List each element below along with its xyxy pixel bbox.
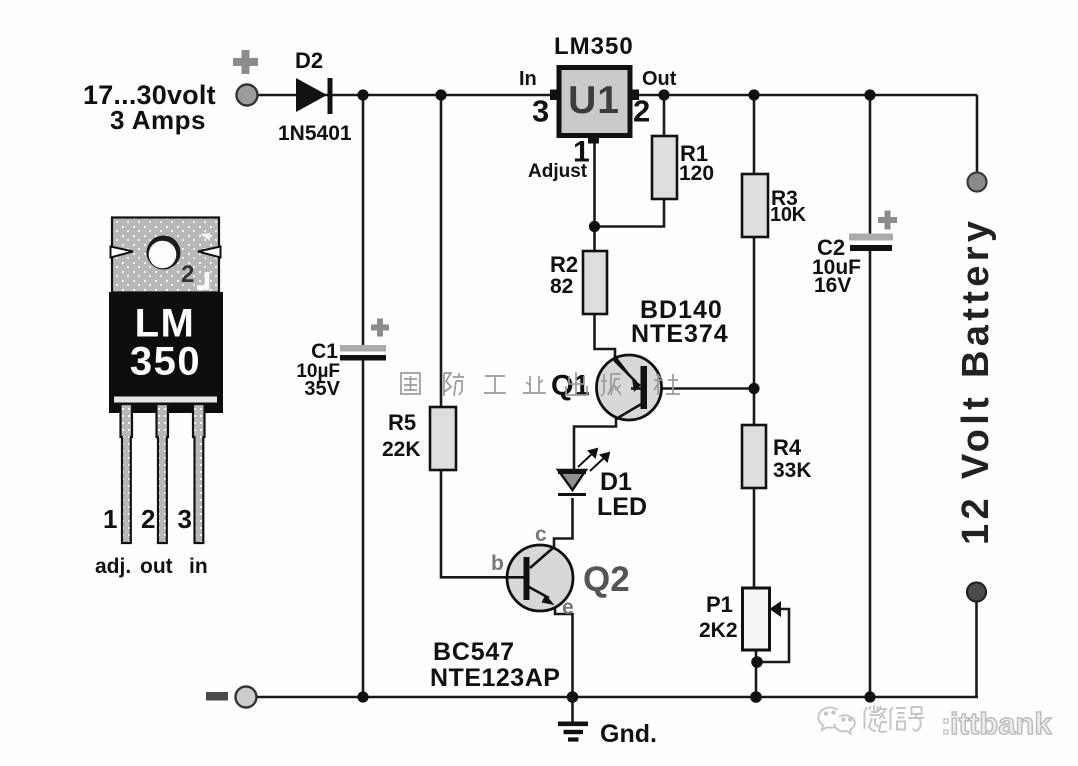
watermark 版 bbox=[601, 374, 621, 396]
battery minus terminal bbox=[967, 583, 986, 602]
wire battery plus drop bbox=[976, 95, 979, 174]
node P1 wiper bottom bbox=[751, 656, 763, 668]
wire R1 top bbox=[663, 95, 666, 136]
svg-text:2K2: 2K2 bbox=[699, 619, 738, 642]
wechat icon bbox=[818, 708, 855, 734]
svg-text:C1: C1 bbox=[311, 340, 338, 363]
svg-text:BC547: BC547 bbox=[433, 638, 515, 666]
svg-text:2: 2 bbox=[141, 504, 155, 534]
wire C2 bottom bbox=[869, 251, 872, 697]
wire R5 to Q2 base bbox=[441, 470, 524, 577]
watermark 国 bbox=[401, 373, 420, 394]
node adjust bbox=[589, 221, 600, 232]
wire P1 bottom bbox=[755, 650, 758, 697]
plus symbol C2 bbox=[878, 211, 897, 230]
node C2 bottom bbox=[864, 691, 875, 702]
svg-text:82: 82 bbox=[550, 275, 573, 298]
svg-text:Q2: Q2 bbox=[583, 560, 630, 599]
LED D1 bbox=[558, 470, 586, 495]
minus symbol bbox=[206, 692, 228, 701]
svg-text:1: 1 bbox=[103, 504, 117, 534]
watermark 社 bbox=[654, 374, 680, 395]
wire C1 branch upper bbox=[362, 95, 365, 345]
wire R1 bottom to adjust node bbox=[595, 199, 665, 227]
resistor R5 bbox=[430, 407, 456, 470]
node Q1 base R3 R4 bbox=[748, 383, 759, 394]
svg-text:3: 3 bbox=[532, 94, 549, 129]
plus symbol input bbox=[233, 50, 258, 74]
node R5 top bbox=[435, 89, 446, 100]
transistor Q2 bbox=[505, 545, 573, 611]
input terminal plus bbox=[237, 85, 258, 106]
wire U1 adjust bbox=[593, 140, 596, 251]
wire Q1 base to node bbox=[647, 387, 754, 390]
wire battery minus drop bbox=[975, 600, 978, 697]
LED arrows bbox=[578, 449, 609, 471]
package leg 2 bbox=[157, 404, 169, 543]
svg-text:e: e bbox=[562, 596, 574, 619]
svg-text:LM350: LM350 bbox=[554, 33, 634, 60]
wire P1 wiper loop bbox=[760, 609, 789, 662]
watermark 业 bbox=[523, 376, 546, 393]
plus symbol C1 bbox=[371, 319, 389, 337]
wire C2 top bbox=[869, 95, 872, 234]
svg-text:LED: LED bbox=[597, 493, 647, 521]
watermark 工 bbox=[484, 376, 506, 393]
resistor R3 bbox=[742, 174, 768, 237]
wire Q1 collector to LED bbox=[574, 403, 643, 470]
svg-text:35V: 35V bbox=[304, 378, 340, 400]
package body bbox=[109, 292, 223, 413]
svg-text:2: 2 bbox=[633, 94, 650, 129]
transistor Q1 bbox=[597, 355, 662, 420]
wire R4 top bbox=[753, 388, 756, 425]
node P1 bottom bbox=[750, 691, 762, 703]
node R1 out bbox=[658, 89, 669, 100]
LM350 package tab bbox=[111, 218, 221, 293]
battery plus terminal bbox=[968, 173, 987, 192]
node C1 bottom bbox=[357, 691, 368, 702]
watermark 防 bbox=[444, 373, 464, 396]
watermark weixin text bbox=[864, 705, 924, 732]
svg-text:R4: R4 bbox=[773, 435, 802, 460]
pin 1 nub bbox=[588, 136, 599, 144]
svg-text:R2: R2 bbox=[550, 252, 578, 277]
svg-text:33K: 33K bbox=[773, 459, 812, 482]
wire top rail bbox=[257, 94, 977, 97]
pin 3 nub bbox=[550, 90, 559, 101]
node C2 top bbox=[864, 89, 875, 100]
svg-text:D2: D2 bbox=[295, 48, 323, 73]
pin 2 nub bbox=[630, 90, 639, 101]
svg-text:ittbank: ittbank bbox=[950, 706, 1052, 741]
wire R3 top bbox=[753, 95, 756, 174]
wire C1 branch lower bbox=[362, 360, 365, 697]
watermark 出 bbox=[566, 372, 587, 395]
wire R4 to P1 bbox=[753, 488, 756, 588]
svg-text:P1: P1 bbox=[706, 592, 733, 617]
svg-text:In: In bbox=[519, 68, 537, 90]
diode D2 bbox=[296, 78, 333, 114]
capacitor C2 bbox=[849, 234, 893, 252]
svg-text:adj.: adj. bbox=[95, 555, 131, 578]
svg-text:3: 3 bbox=[178, 504, 192, 534]
svg-text:16V: 16V bbox=[814, 274, 851, 297]
svg-text:b: b bbox=[491, 552, 504, 575]
svg-text:NTE123AP: NTE123AP bbox=[430, 664, 560, 692]
op-amp U1 regulator box bbox=[559, 68, 630, 136]
svg-text:NTE374: NTE374 bbox=[631, 320, 729, 348]
node ground bbox=[567, 691, 579, 703]
svg-text:120: 120 bbox=[679, 162, 714, 185]
svg-text:U1: U1 bbox=[568, 79, 620, 122]
wire R3 bottom bbox=[753, 237, 756, 388]
wire bottom rail bbox=[256, 696, 978, 699]
ground bbox=[558, 697, 588, 742]
package hole bbox=[147, 236, 181, 270]
svg-text:22K: 22K bbox=[382, 438, 421, 461]
wire Q2 emitter to ground rail bbox=[551, 598, 573, 697]
svg-text:350: 350 bbox=[130, 340, 201, 384]
output terminal minus bbox=[236, 687, 257, 708]
wire R5 branch bbox=[440, 95, 443, 407]
svg-text:Q1: Q1 bbox=[551, 370, 590, 402]
svg-text:Out: Out bbox=[642, 68, 677, 90]
svg-text:D1: D1 bbox=[600, 468, 632, 496]
capacitor C1 bbox=[340, 345, 386, 361]
resistor R1 bbox=[652, 136, 677, 199]
resistor R2 bbox=[583, 251, 607, 314]
svg-text:10K: 10K bbox=[770, 204, 807, 226]
resistor R4 bbox=[742, 425, 766, 488]
package leg 1 bbox=[121, 404, 133, 543]
svg-text:in: in bbox=[189, 555, 208, 578]
svg-text:3 Amps: 3 Amps bbox=[110, 105, 206, 135]
node C1 top bbox=[357, 89, 368, 100]
wire LED cathode to Q2 collector bbox=[530, 498, 573, 568]
svg-text:Adjust: Adjust bbox=[528, 161, 588, 182]
svg-text:out: out bbox=[140, 555, 173, 578]
package leg 3 bbox=[193, 404, 205, 543]
svg-text:2: 2 bbox=[181, 261, 194, 288]
svg-text:Gnd.: Gnd. bbox=[600, 720, 657, 748]
svg-text:1N5401: 1N5401 bbox=[278, 122, 352, 145]
svg-text:R5: R5 bbox=[388, 410, 416, 435]
potentiometer P1 bbox=[743, 588, 782, 650]
wire R2 to Q1 emitter bbox=[595, 314, 636, 382]
node R3 top bbox=[748, 89, 759, 100]
svg-text:c: c bbox=[535, 523, 547, 546]
